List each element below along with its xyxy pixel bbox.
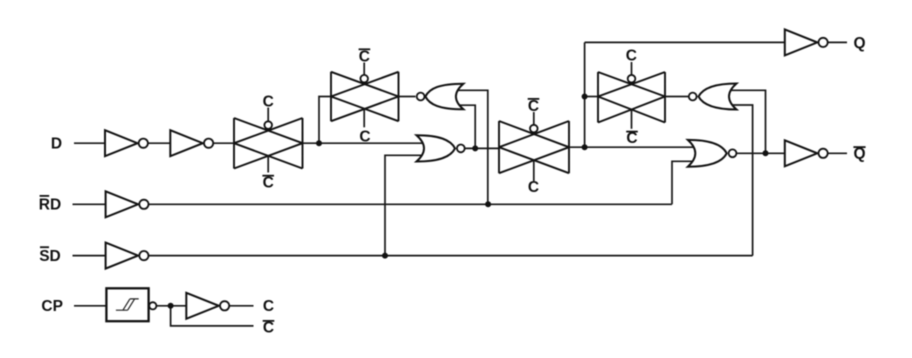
U5 hysteresis symbol (116, 299, 139, 310)
wire: N2 input from SD line (385, 155, 423, 255)
svg-text:C: C (359, 48, 370, 65)
transmission gate TG2 (331, 72, 399, 121)
svg-text:C: C (263, 175, 274, 192)
inverter U3 (RD) (106, 191, 139, 217)
TG1 control stub bottom (267, 156, 269, 173)
inverter U2 (170, 130, 203, 156)
svg-text:C: C (263, 298, 274, 315)
svg-text:Q: Q (853, 146, 865, 163)
wire: N1 input from RD line (456, 90, 488, 204)
inverter U8 (clock buffer) (186, 293, 219, 319)
wire: SD input (73, 255, 106, 257)
wire: N1 input from N2 output (456, 105, 475, 148)
wire: N3 input from Q-bar node (729, 90, 766, 153)
wire: U5 out (157, 305, 187, 307)
wire: N4 output to U7 (737, 152, 785, 154)
TG1 control stub top (267, 108, 269, 122)
wire: TG4 left stub (585, 96, 598, 98)
svg-text:CP: CP (41, 298, 63, 315)
wire: TG2 to N1 output bubble (399, 96, 416, 98)
junction: N2 output node (472, 145, 478, 151)
wire: U1 out (148, 142, 170, 144)
wire: U2 out (214, 142, 234, 144)
wire: slave node vertical to Q line (584, 42, 586, 147)
wire: TG4 to N3 output bubble (665, 96, 688, 98)
junction: slave node (582, 144, 588, 150)
junction: Q-bar node (763, 150, 769, 156)
wire: C-bar branch (171, 306, 254, 326)
junction: node A (316, 140, 322, 146)
inverter U4 (SD) (106, 243, 139, 269)
wire: RD input (73, 203, 106, 205)
TG4 control bubble (628, 75, 636, 83)
NOR gate N1 (master feedback, points left) (425, 84, 463, 110)
wire: TG3 output to NOR N4 input (slave node) (569, 146, 695, 148)
wire: CP input (74, 305, 106, 307)
svg-text:C: C (528, 98, 539, 115)
TG4 control stub top (631, 62, 633, 75)
TG3 control stub top (533, 112, 535, 125)
wire: N4 input from RD line (672, 161, 694, 204)
wire: N2 output to TG3 (465, 147, 499, 149)
wire: U6 out to Q label (828, 41, 847, 43)
junction: RD to N1 (485, 201, 491, 207)
svg-text:C: C (263, 94, 274, 111)
wire: U8 out to C label (230, 305, 254, 307)
TG3 control stub bottom (533, 160, 535, 181)
wire: TG1 output to NOR N2 input (node A) (303, 142, 424, 144)
wire: SD line (149, 255, 753, 257)
Schmitt trigger U5 (106, 288, 148, 321)
junction: clock node (168, 303, 174, 309)
transmission gate TG4 (598, 72, 665, 123)
transmission gate TG3 (499, 121, 569, 173)
svg-text:C: C (626, 48, 637, 65)
inverter U6 (Q output) (785, 29, 818, 55)
TG1 control bubble (264, 121, 272, 129)
inverter U1 (105, 130, 138, 156)
N3 output bubble (689, 93, 697, 101)
wire: TG2 feedback to node A (319, 97, 331, 144)
NOR gate N2 (master latch, points right) (417, 135, 456, 161)
transmission gate TG1 (234, 118, 303, 169)
NOR gate N3 (slave feedback, points left) (699, 84, 737, 110)
TG2 control bubble (360, 75, 368, 83)
svg-text:C: C (263, 320, 274, 337)
svg-text:SD: SD (39, 248, 61, 265)
inverter U7 (Q-bar output) (785, 140, 818, 166)
svg-text:Q: Q (853, 35, 865, 52)
U5 output bubble (149, 302, 156, 309)
wire: N3 input from SD line (729, 105, 753, 256)
junction: TG4 input node (582, 94, 588, 100)
N1 output bubble (417, 93, 425, 101)
N4 output bubble (729, 149, 737, 157)
TG3 control bubble (530, 125, 538, 133)
svg-text:RD: RD (39, 197, 61, 214)
svg-text:C: C (359, 129, 370, 146)
TG4 control stub bottom (631, 110, 633, 129)
wire: Q line (585, 41, 785, 43)
TG2 control stub bottom (363, 109, 365, 127)
junction: SD to N2 (382, 253, 388, 259)
svg-text:C: C (626, 130, 637, 147)
TG2 control stub top (363, 63, 365, 75)
wire: RD line (149, 203, 672, 205)
NOR gate N4 (slave latch, points right) (688, 140, 727, 167)
wire: D input (74, 142, 105, 144)
svg-text:C: C (528, 179, 539, 196)
svg-text:D: D (51, 136, 62, 153)
wire: U7 out to Q-bar label (828, 152, 847, 154)
N2 output bubble (457, 145, 465, 153)
